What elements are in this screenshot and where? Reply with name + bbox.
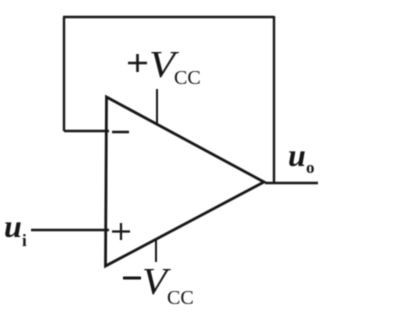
- op-amp U1: [106, 97, 265, 266]
- -Vcc supply tick: [155, 240, 157, 262]
- svg-text:CC: CC: [167, 287, 194, 309]
- inverting input minus marker: [112, 131, 129, 133]
- non-inverting input plus marker: [112, 223, 130, 240]
- wire feedback top horizontal: [63, 16, 274, 18]
- svg-text:u: u: [288, 137, 306, 173]
- wire output uo: [265, 182, 318, 184]
- wire input ui: [31, 229, 109, 231]
- svg-text:u: u: [4, 208, 22, 244]
- svg-text:o: o: [306, 158, 315, 177]
- wire feedback right vertical: [273, 16, 275, 183]
- svg-text:CC: CC: [174, 67, 201, 89]
- wire feedback left vertical: [63, 17, 65, 131]
- svg-text:i: i: [22, 231, 27, 250]
- wire inverting input: [64, 130, 109, 132]
- label +Vcc plus sign: [128, 54, 147, 72]
- +Vcc supply tick: [156, 89, 158, 124]
- label -Vcc minus sign: [123, 277, 141, 280]
